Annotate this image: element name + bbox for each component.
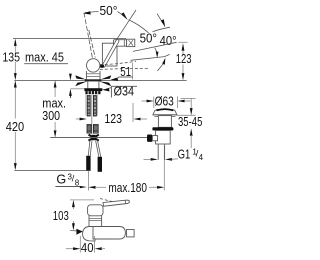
- 40deg arc + arrows: [155, 48, 157, 57]
- svg-text:135: 135: [2, 50, 20, 64]
- arc from 50-2 text to 40 line: [153, 27, 171, 32]
- lever joint blob: [99, 64, 104, 68]
- hoses hanging down: [88, 141, 101, 158]
- svg-text:123: 123: [176, 52, 192, 66]
- svg-text:max.180: max.180: [108, 181, 147, 195]
- mounting rays at deck (black): [75, 75, 86, 79]
- spout tube: [114, 40, 127, 47]
- solid lever axis extension: [114, 10, 136, 44]
- dim 35-45: [181, 98, 196, 100]
- svg-text:max. 45: max. 45: [25, 50, 64, 64]
- dimension 135/420 vertical line: [14, 41, 16, 168]
- aerator box: [127, 39, 135, 46]
- svg-text:4: 4: [199, 153, 204, 162]
- leader 50-1 text to arrow: [118, 12, 122, 15]
- arrow 420 bottom: [14, 163, 17, 170]
- arrow 135 bottom / 420 top (bowtie at deck): [14, 73, 17, 80]
- side knob black: [147, 135, 152, 142]
- wire deck line: [14, 80, 186, 82]
- 50-2 right leader line + arrow: [157, 14, 163, 23]
- dashed lever raised: [84, 13, 95, 59]
- side knob cap: [88, 205, 103, 216]
- side inlet box: [152, 136, 157, 141]
- body below dome: [86, 71, 100, 80]
- leader arc to 50-2: [129, 20, 149, 33]
- tailpiece: [158, 144, 164, 160]
- drain flange: [153, 109, 177, 114]
- leader left of 50-1: [85, 11, 99, 12]
- svg-text:40°: 40°: [160, 34, 177, 48]
- mounting nut black bar: [84, 88, 102, 91]
- svg-text:103: 103: [53, 209, 69, 223]
- svg-text:50°: 50°: [100, 4, 118, 18]
- short strips below gap: [87, 125, 98, 134]
- wire top reference line: [13, 38, 126, 40]
- arrow 135 top: [14, 39, 17, 46]
- dim G1 1/4: [144, 158, 152, 160]
- dimension max45 arrows at x=70.4: [70, 88, 86, 90]
- shank hatched strips: [87, 96, 96, 117]
- dim 123 right: extension T at top: [178, 41, 187, 43]
- side faucet: dashes above lever: [100, 199, 116, 203]
- dim 123 left (horizontal): [76, 118, 83, 120]
- svg-text:G1: G1: [178, 148, 191, 162]
- 40deg fan line A (to 123 dim): [133, 42, 177, 51]
- dimension max300 line: [54, 83, 56, 130]
- shank outline below deck: [88, 82, 99, 89]
- svg-text:35-45: 35-45: [178, 115, 202, 129]
- svg-text:40: 40: [81, 241, 94, 255]
- dim Ø63: [153, 97, 155, 109]
- center pull rod line: [91, 95, 93, 135]
- svg-text:Ø63: Ø63: [155, 94, 174, 108]
- hose bottom reference line: [14, 170, 86, 172]
- svg-text:123: 123: [104, 112, 122, 126]
- 40deg fan line B: [131, 57, 165, 61]
- drain neck: [158, 116, 171, 128]
- horizontal rod to drain: [50, 137, 147, 139]
- side body: [89, 216, 102, 227]
- dim 103: [70, 199, 94, 201]
- side mounting wedge black: [76, 229, 82, 235]
- junction node black: [89, 135, 99, 141]
- hose end right black: [98, 157, 102, 172]
- shank outline below nut: [86, 95, 98, 116]
- dim 40: [79, 236, 81, 253]
- svg-text:G: G: [56, 172, 66, 186]
- side spout capsule: [93, 227, 125, 240]
- dim Ø34 bracket + label: [111, 85, 137, 87]
- escutcheon base ring: [85, 79, 101, 81]
- side lever capsule: [103, 200, 129, 206]
- dim 51: extension line: [132, 63, 134, 80]
- drain body: [156, 131, 171, 145]
- svg-text:420: 420: [6, 120, 24, 134]
- black collar: [152, 127, 173, 130]
- side escutcheon: [83, 227, 95, 242]
- faucet body block: [102, 43, 117, 66]
- side aerator box: [127, 230, 135, 237]
- dome circle: [87, 59, 100, 72]
- lever bar: [104, 41, 118, 66]
- dim max.180: [87, 171, 89, 191]
- svg-text:Ø34: Ø34: [114, 84, 134, 98]
- svg-text:50°: 50°: [140, 32, 157, 46]
- svg-text:300: 300: [42, 109, 60, 123]
- dashed tilted spout outline: [100, 61, 150, 69]
- arrow on axis (50-1 right): [121, 12, 128, 20]
- hose end left black: [86, 156, 90, 171]
